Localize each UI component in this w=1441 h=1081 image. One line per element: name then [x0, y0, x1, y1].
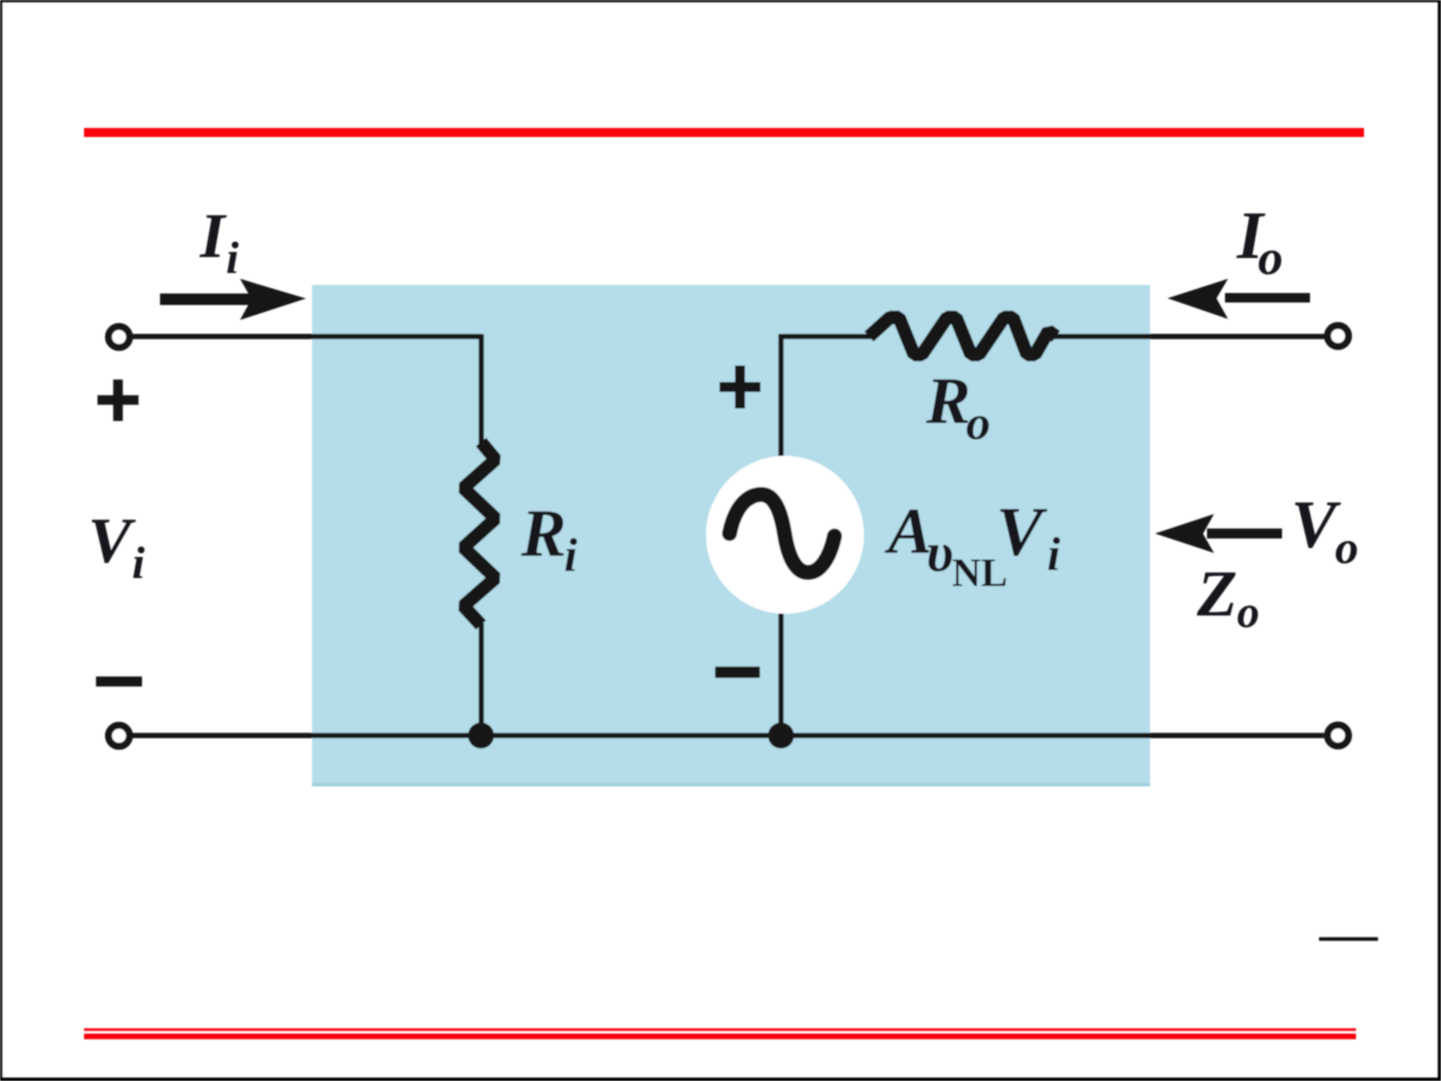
svg-text:υ: υ: [926, 522, 953, 584]
svg-text:i: i: [226, 232, 239, 283]
svg-text:o: o: [1258, 229, 1283, 285]
svg-text:o: o: [1237, 587, 1260, 637]
svg-text:i: i: [564, 529, 578, 582]
svg-text:A: A: [884, 495, 932, 568]
svg-text:I: I: [199, 200, 227, 271]
svg-text:R: R: [925, 364, 971, 438]
svg-text:Z: Z: [1196, 558, 1237, 631]
svg-text:V: V: [88, 505, 136, 577]
svg-text:i: i: [132, 537, 145, 588]
svg-text:R: R: [520, 495, 566, 571]
svg-text:i: i: [1047, 528, 1061, 581]
svg-text:o: o: [1335, 522, 1359, 574]
svg-text:o: o: [966, 395, 991, 450]
svg-text:V: V: [996, 494, 1048, 571]
svg-text:V: V: [1291, 486, 1341, 562]
